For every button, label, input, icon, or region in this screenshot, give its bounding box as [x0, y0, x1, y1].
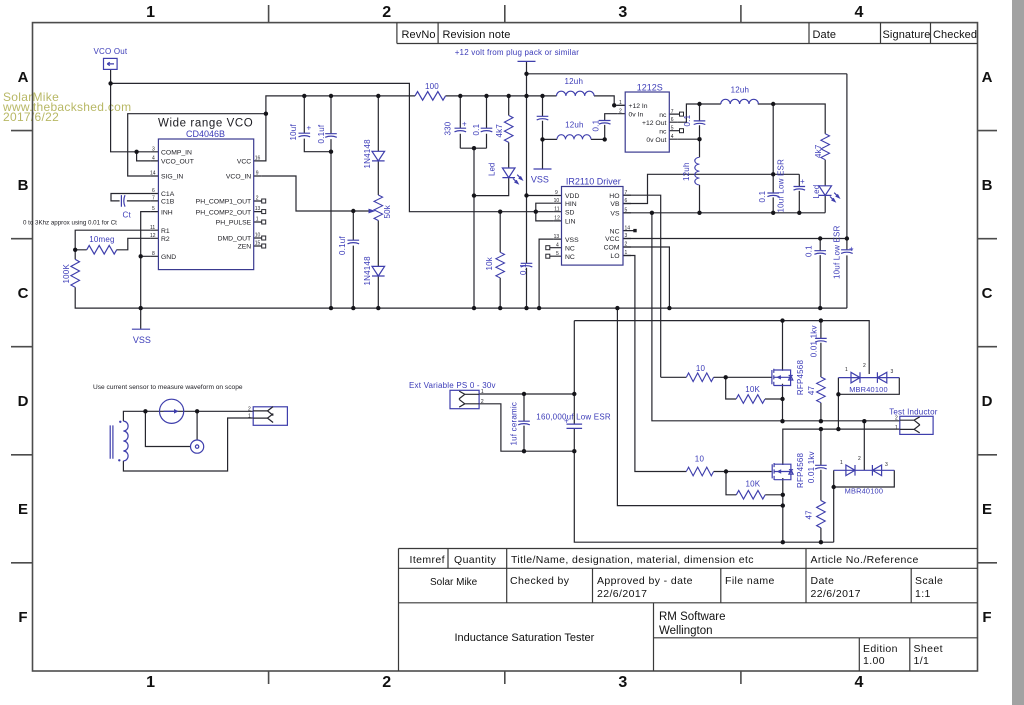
svg-text:C1B: C1B — [161, 199, 175, 206]
svg-text:Date: Date — [813, 29, 837, 41]
svg-text:0.01 1kv: 0.01 1kv — [809, 325, 818, 357]
svg-text:2: 2 — [625, 242, 628, 248]
svg-text:Led: Led — [812, 185, 821, 199]
svg-text:1:1: 1:1 — [915, 588, 931, 600]
svg-text:9: 9 — [555, 190, 558, 196]
svg-text:PH_COMP2_OUT: PH_COMP2_OUT — [196, 209, 252, 216]
svg-text:1: 1 — [256, 217, 259, 223]
svg-text:10uf Low ESR: 10uf Low ESR — [833, 225, 842, 279]
svg-text:0.1: 0.1 — [591, 119, 600, 131]
svg-text:Ct: Ct — [123, 211, 132, 220]
svg-text:7: 7 — [152, 196, 155, 202]
svg-text:14: 14 — [625, 225, 631, 231]
svg-text:Inductance Saturation Tester: Inductance Saturation Tester — [455, 632, 595, 644]
svg-text:COM: COM — [604, 245, 620, 252]
svg-text:B: B — [982, 177, 993, 194]
svg-text:10: 10 — [696, 364, 706, 373]
svg-text:10: 10 — [554, 198, 560, 204]
svg-text:1: 1 — [895, 425, 898, 431]
svg-text:1: 1 — [248, 414, 251, 420]
svg-text:COMP_IN: COMP_IN — [161, 150, 192, 157]
svg-text:15: 15 — [255, 241, 261, 247]
svg-text:LO: LO — [610, 253, 619, 260]
svg-text:1: 1 — [619, 100, 622, 106]
svg-text:0.1: 0.1 — [805, 245, 814, 257]
svg-text:1: 1 — [840, 460, 843, 466]
svg-text:VDD: VDD — [565, 193, 579, 200]
svg-text:14: 14 — [150, 171, 156, 177]
svg-text:6: 6 — [671, 117, 674, 123]
svg-text:VCO_IN: VCO_IN — [226, 174, 251, 181]
svg-text:F: F — [18, 609, 27, 626]
svg-text:100: 100 — [425, 82, 439, 91]
svg-text:9: 9 — [256, 171, 259, 177]
svg-text:5: 5 — [556, 251, 559, 257]
svg-text:4: 4 — [556, 242, 559, 248]
svg-text:0.1: 0.1 — [683, 114, 692, 126]
svg-text:0 to 3Khz approx using 0.01 fo: 0 to 3Khz approx using 0.01 for Ct — [23, 220, 117, 227]
svg-text:50k: 50k — [383, 204, 392, 218]
svg-text:2: 2 — [895, 415, 898, 421]
svg-text:DMD_OUT: DMD_OUT — [218, 236, 252, 243]
svg-text:1.00: 1.00 — [863, 655, 885, 667]
svg-text:4: 4 — [671, 134, 674, 140]
svg-text:10meg: 10meg — [89, 235, 114, 244]
svg-text:47: 47 — [805, 510, 814, 520]
svg-text:0.1: 0.1 — [472, 123, 481, 135]
svg-text:22/6/2017: 22/6/2017 — [597, 588, 647, 600]
svg-text:160,000uf Low ESR: 160,000uf Low ESR — [536, 413, 611, 422]
svg-text:10: 10 — [255, 233, 261, 239]
svg-text:0.01 1kv: 0.01 1kv — [807, 451, 816, 483]
svg-text:10uf Low ESR: 10uf Low ESR — [776, 159, 785, 213]
svg-text:VCO Out: VCO Out — [94, 47, 128, 56]
svg-text:F: F — [982, 609, 991, 626]
svg-text:D: D — [18, 393, 29, 410]
svg-text:5: 5 — [625, 208, 628, 214]
svg-text:12uh: 12uh — [565, 77, 584, 86]
svg-text:MBR40100: MBR40100 — [845, 487, 884, 496]
svg-text:+: + — [307, 124, 312, 133]
svg-text:VB: VB — [610, 201, 620, 208]
svg-text:1uf ceramic: 1uf ceramic — [509, 402, 518, 446]
svg-text:VSS: VSS — [531, 175, 549, 185]
svg-text:1: 1 — [625, 250, 628, 256]
svg-text:1N4148: 1N4148 — [363, 139, 372, 169]
svg-text:RevNo: RevNo — [402, 29, 436, 41]
svg-text:13: 13 — [255, 206, 261, 212]
svg-text:Wide range VCO: Wide range VCO — [158, 118, 253, 130]
svg-text:Checked by: Checked by — [510, 575, 570, 587]
svg-text:11: 11 — [150, 225, 155, 231]
svg-text:330: 330 — [443, 121, 452, 135]
svg-text:0v Out: 0v Out — [646, 137, 666, 144]
svg-text:1N4148: 1N4148 — [363, 256, 372, 286]
svg-text:PH_PULSE: PH_PULSE — [216, 220, 252, 227]
svg-text:10K: 10K — [745, 385, 760, 394]
svg-text:7: 7 — [625, 190, 628, 196]
svg-text:RFP4568: RFP4568 — [796, 360, 805, 396]
svg-text:0.1uf: 0.1uf — [338, 236, 347, 255]
svg-text:PH_COMP1_OUT: PH_COMP1_OUT — [196, 199, 252, 206]
svg-text:D: D — [982, 393, 993, 410]
svg-text:Led: Led — [488, 163, 497, 176]
svg-text:0.1: 0.1 — [519, 263, 528, 275]
svg-text:IR2110 Driver: IR2110 Driver — [566, 177, 621, 187]
svg-text:HIN: HIN — [565, 201, 577, 208]
svg-text:Article No./Reference: Article No./Reference — [811, 554, 919, 566]
svg-text:MBR40100: MBR40100 — [849, 385, 888, 394]
svg-text:1: 1 — [146, 674, 155, 691]
svg-text:Revision note: Revision note — [443, 29, 511, 41]
svg-text:12: 12 — [150, 233, 156, 239]
svg-text:RFP4568: RFP4568 — [796, 452, 805, 488]
svg-text:NC: NC — [565, 254, 575, 261]
svg-text:Approved by - date: Approved by - date — [597, 575, 693, 587]
svg-text:7: 7 — [671, 109, 674, 115]
svg-text:+12 volt from plug pack or sim: +12 volt from plug pack or similar — [455, 48, 580, 57]
svg-text:4k7: 4k7 — [495, 124, 504, 138]
svg-text:47: 47 — [807, 385, 816, 395]
svg-text:nc: nc — [659, 112, 667, 119]
svg-text:10k: 10k — [485, 256, 494, 270]
svg-text:12uh: 12uh — [565, 121, 584, 130]
svg-text:Edition: Edition — [863, 643, 898, 655]
svg-text:Scale: Scale — [915, 575, 943, 587]
svg-text:+: + — [462, 120, 467, 129]
svg-text:+: + — [849, 245, 854, 254]
svg-text:2: 2 — [858, 456, 861, 462]
svg-text:2: 2 — [619, 108, 622, 114]
svg-text:C: C — [982, 285, 993, 302]
svg-text:SD: SD — [565, 209, 575, 216]
svg-text:6: 6 — [625, 198, 628, 204]
svg-text:4: 4 — [152, 156, 155, 162]
svg-text:1212S: 1212S — [637, 83, 663, 93]
svg-text:NC: NC — [610, 228, 620, 235]
svg-text:HO: HO — [609, 193, 619, 200]
svg-text:+: + — [800, 177, 805, 186]
svg-text:13: 13 — [554, 234, 560, 240]
svg-text:2: 2 — [248, 406, 251, 412]
svg-text:Solar Mike: Solar Mike — [430, 577, 478, 588]
svg-text:VSS: VSS — [133, 335, 151, 345]
svg-text:2: 2 — [481, 399, 484, 405]
svg-text:E: E — [18, 501, 28, 518]
svg-text:3: 3 — [152, 146, 155, 152]
svg-text:B: B — [18, 177, 29, 194]
svg-text:SIG_IN: SIG_IN — [161, 174, 183, 181]
svg-text:11: 11 — [554, 206, 559, 212]
svg-text:10K: 10K — [746, 480, 761, 489]
svg-text:2: 2 — [382, 4, 391, 21]
svg-text:+12 Out: +12 Out — [642, 120, 666, 127]
svg-text:File name: File name — [725, 575, 775, 587]
svg-text:LIN: LIN — [565, 219, 576, 226]
svg-text:0.1: 0.1 — [758, 190, 767, 202]
svg-text:Signature: Signature — [883, 29, 931, 41]
svg-text:10: 10 — [695, 455, 705, 464]
svg-text:8: 8 — [152, 251, 155, 257]
svg-text:1: 1 — [845, 367, 848, 373]
svg-text:GND: GND — [161, 254, 176, 261]
svg-text:4k7: 4k7 — [814, 144, 823, 158]
svg-text:+12 In: +12 In — [629, 103, 648, 110]
svg-text:Checked: Checked — [933, 29, 977, 41]
svg-text:22/6/2017: 22/6/2017 — [811, 588, 861, 600]
svg-text:5: 5 — [671, 125, 674, 131]
svg-text:10uf: 10uf — [289, 124, 298, 141]
svg-text:3: 3 — [625, 233, 628, 239]
svg-text:0.1uf: 0.1uf — [317, 124, 326, 143]
svg-text:1: 1 — [481, 389, 484, 395]
svg-text:Itemref: Itemref — [410, 554, 445, 566]
svg-text:A: A — [18, 69, 29, 86]
svg-text:ZEN: ZEN — [238, 244, 252, 251]
svg-text:12uh: 12uh — [731, 86, 750, 95]
svg-text:VSS: VSS — [565, 237, 579, 244]
svg-text:3: 3 — [618, 4, 627, 21]
svg-text:3: 3 — [885, 462, 888, 468]
svg-text:0v In: 0v In — [629, 111, 644, 118]
svg-text:12uh: 12uh — [682, 162, 691, 181]
svg-text:5: 5 — [152, 206, 155, 212]
svg-text:VCC: VCC — [237, 159, 251, 166]
svg-text:nc: nc — [659, 128, 667, 135]
svg-text:2: 2 — [382, 674, 391, 691]
svg-text:R2: R2 — [161, 236, 170, 243]
svg-text:+: + — [564, 417, 569, 426]
svg-text:4: 4 — [854, 4, 863, 21]
svg-text:Date: Date — [811, 575, 835, 587]
svg-text:Wellington: Wellington — [659, 625, 713, 637]
svg-text:2: 2 — [863, 363, 866, 369]
svg-text:R1: R1 — [161, 228, 170, 235]
svg-text:Use current sensor to measure: Use current sensor to measure waveform o… — [93, 384, 243, 391]
svg-text:6: 6 — [152, 188, 155, 194]
svg-text:12: 12 — [554, 216, 560, 222]
svg-text:Quantity: Quantity — [454, 554, 497, 566]
svg-text:E: E — [982, 501, 992, 518]
svg-text:RM Software: RM Software — [659, 611, 725, 623]
svg-text:4: 4 — [854, 674, 863, 691]
svg-text:3: 3 — [618, 674, 627, 691]
svg-text:Sheet: Sheet — [914, 643, 943, 655]
svg-text:INH: INH — [161, 209, 173, 216]
svg-text:C: C — [18, 285, 29, 302]
svg-text:Title/Name, designation, mater: Title/Name, designation, material, dimen… — [511, 554, 754, 566]
svg-text:A: A — [982, 69, 993, 86]
svg-text:CD4046B: CD4046B — [186, 129, 225, 139]
svg-text:NC: NC — [565, 245, 575, 252]
svg-text:C1A: C1A — [161, 191, 175, 198]
svg-text:VCO_OUT: VCO_OUT — [161, 159, 194, 166]
svg-text:100K: 100K — [62, 264, 71, 284]
svg-text:VCC: VCC — [605, 236, 619, 243]
svg-text:3: 3 — [891, 369, 894, 375]
svg-text:VS: VS — [610, 211, 620, 218]
svg-text:2017/6/22: 2017/6/22 — [3, 110, 59, 124]
svg-text:16: 16 — [255, 156, 261, 162]
svg-text:1: 1 — [146, 4, 155, 21]
svg-text:1/1: 1/1 — [914, 655, 930, 667]
svg-text:2: 2 — [256, 196, 259, 202]
